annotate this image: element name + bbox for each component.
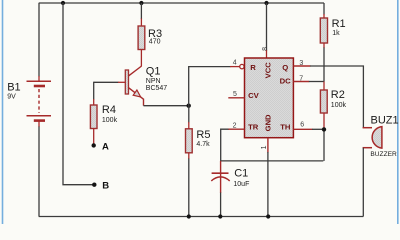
resistor R4 <box>90 104 117 129</box>
svg-text:CV: CV <box>248 91 260 100</box>
svg-text:3: 3 <box>299 60 303 67</box>
svg-text:Q: Q <box>282 63 288 72</box>
wire battery bottom lead <box>38 121 40 217</box>
transistor Q1 <box>125 66 167 106</box>
svg-text:100k: 100k <box>102 117 118 124</box>
svg-text:TH: TH <box>280 123 291 132</box>
capacitor C1 <box>211 167 249 188</box>
svg-text:7: 7 <box>299 76 303 83</box>
svg-text:2: 2 <box>233 122 237 129</box>
svg-text:470: 470 <box>149 39 161 46</box>
buzzer BUZ1 <box>363 115 399 158</box>
wire buzzer bottom lead <box>362 148 364 217</box>
node junction top-B <box>61 1 65 5</box>
svg-text:VCC: VCC <box>264 62 273 79</box>
resistor R1 <box>320 18 345 43</box>
op-amp U1 555 timer body <box>245 58 294 138</box>
node junction top-VCC <box>264 1 268 5</box>
svg-text:1: 1 <box>261 145 268 149</box>
svg-text:BUZ1: BUZ1 <box>371 115 399 127</box>
wire net B (vertical drop and run to node B) <box>63 3 94 185</box>
wire top bus <box>39 2 324 4</box>
svg-text:R2: R2 <box>331 89 345 101</box>
pin 4 inversion bubble <box>240 64 244 68</box>
wire R3 top lead <box>140 3 142 26</box>
svg-text:B: B <box>102 181 109 192</box>
svg-text:TR: TR <box>248 123 259 132</box>
node junction top-R3 <box>139 1 143 5</box>
wire GND pin 1 lead <box>267 138 269 217</box>
svg-text:1k: 1k <box>332 30 340 37</box>
svg-text:R4: R4 <box>102 104 116 116</box>
wire R2 bottom lead <box>323 113 325 129</box>
svg-text:C1: C1 <box>234 167 248 179</box>
wire C1 top lead <box>220 161 222 173</box>
wire R1 bottom lead to node 7 <box>323 43 325 82</box>
node A <box>92 141 110 152</box>
svg-text:R: R <box>250 63 256 72</box>
resistor R2 <box>320 89 346 113</box>
wire R5 bottom lead <box>188 153 190 217</box>
svg-text:9V: 9V <box>7 93 16 100</box>
svg-text:4.7k: 4.7k <box>196 141 210 148</box>
wire DC pin 7 net <box>293 81 324 83</box>
wire bottom bus (ground rail) <box>39 216 364 218</box>
svg-text:GND: GND <box>264 114 273 131</box>
svg-text:A: A <box>102 141 109 152</box>
wire R2 top lead <box>323 82 325 91</box>
node junction GND-ground <box>266 214 270 218</box>
wire R5 top lead <box>188 106 190 129</box>
wire C1 bottom lead <box>220 174 222 217</box>
node junction emitter/R5/reset <box>187 104 191 108</box>
wire battery top lead <box>38 3 40 81</box>
svg-text:10uF: 10uF <box>233 181 249 188</box>
wire TH pin 6 net <box>293 129 324 161</box>
svg-text:BUZZER: BUZZER <box>370 151 397 158</box>
svg-text:5: 5 <box>233 91 237 98</box>
wire reset net up and to pin 4 <box>189 67 240 106</box>
svg-text:R5: R5 <box>196 129 210 141</box>
svg-text:4: 4 <box>233 60 237 67</box>
node junction R5-ground <box>187 214 191 218</box>
svg-text:BC547: BC547 <box>146 85 168 92</box>
wire R1 top lead from top bus <box>323 3 325 18</box>
svg-text:B1: B1 <box>7 82 20 94</box>
svg-text:Q1: Q1 <box>146 66 161 78</box>
svg-text:6: 6 <box>300 122 304 129</box>
resistor R5 <box>186 129 211 153</box>
svg-text:8: 8 <box>262 47 269 51</box>
wire VCC pin 8 lead <box>266 3 268 58</box>
wire TR pin 2 net <box>221 129 324 161</box>
wire R4 top lead <box>93 82 95 105</box>
wire R3 bottom lead to collector <box>140 50 142 67</box>
svg-text:DC: DC <box>280 76 292 85</box>
battery B1 <box>7 81 51 120</box>
wire Q pin 3 net to buzzer <box>293 66 363 128</box>
wire emitter to junction <box>144 105 189 107</box>
node B <box>92 181 109 192</box>
wire base wire <box>94 81 126 83</box>
svg-text:R1: R1 <box>332 18 346 30</box>
svg-text:100k: 100k <box>331 102 347 109</box>
node junction C1-ground <box>218 214 222 218</box>
node junction TH/R2 <box>322 127 326 131</box>
resistor R3 <box>138 26 162 50</box>
wire CV pin 5 stub <box>228 97 244 99</box>
wire R4 bottom lead <box>93 129 95 146</box>
